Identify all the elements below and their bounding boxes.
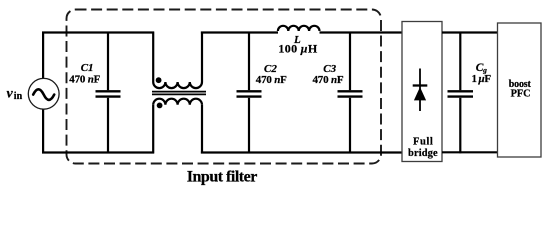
full bridge box	[402, 22, 442, 162]
dashed box: input filter	[67, 10, 382, 164]
wire: bottom left horizontal	[42, 151, 154, 153]
svg-text:Input filter: Input filter	[187, 169, 257, 186]
svg-text:bridge: bridge	[408, 148, 438, 159]
choke: top winding (arcs bulge down)	[153, 82, 202, 88]
svg-text:C3: C3	[323, 63, 336, 75]
wire: top right horizontal	[442, 31, 498, 33]
source vin circle	[28, 78, 59, 109]
diode triangle	[414, 87, 426, 100]
wire: bottom mid horizontal	[201, 151, 402, 153]
boost PFC box	[498, 23, 542, 157]
diode vertical lead	[419, 69, 421, 112]
choke: right riser top	[201, 32, 203, 83]
svg-text:1 μF: 1 μF	[472, 73, 492, 85]
wire: left vertical upper	[42, 32, 44, 79]
capacitor C1 plates	[96, 91, 121, 96]
svg-text:470 nF: 470 nF	[256, 74, 287, 86]
diode cathode bar	[413, 84, 428, 86]
choke: polarity dot bottom	[157, 103, 163, 109]
svg-text:470 nF: 470 nF	[69, 74, 100, 86]
wire: top left horizontal	[42, 31, 154, 33]
wire: top horizontal L to full bridge	[320, 31, 403, 33]
capacitor C1 branch top	[107, 32, 109, 91]
svg-text:v: v	[7, 87, 14, 102]
svg-text:Full: Full	[413, 137, 433, 148]
choke: bottom winding (arcs bulge up)	[153, 99, 202, 105]
svg-text:PFC: PFC	[511, 89, 531, 100]
capacitor Cg branch top	[459, 32, 461, 91]
capacitor C3 plates	[338, 91, 363, 96]
capacitor Cg plates	[448, 91, 474, 96]
choke: left riser top	[152, 32, 154, 83]
svg-text:C1: C1	[81, 62, 94, 74]
choke: core double line	[152, 92, 206, 95]
capacitor C3 branch top	[349, 32, 351, 91]
choke: left riser bottom	[152, 105, 154, 154]
svg-text:470 nF: 470 nF	[313, 74, 344, 86]
wire: left vertical lower	[42, 109, 44, 153]
wire: bottom right horizontal	[442, 151, 498, 153]
source sine wave	[33, 89, 54, 100]
choke: polarity dot top	[156, 77, 162, 83]
capacitor C2 branch top	[248, 32, 250, 91]
svg-text:100 μH: 100 μH	[278, 41, 317, 55]
capacitor C2 plates	[237, 91, 262, 96]
choke: right riser bottom	[201, 105, 203, 154]
wire: top mid horizontal (choke to L)	[201, 31, 278, 33]
capacitor C2 branch bottom	[248, 98, 250, 154]
svg-text:in: in	[14, 91, 23, 102]
capacitor Cg branch bottom	[459, 98, 461, 154]
capacitor C3 branch bottom	[349, 98, 351, 154]
capacitor C1 branch bottom	[107, 98, 109, 154]
inductor L (4 humps)	[278, 26, 320, 31]
